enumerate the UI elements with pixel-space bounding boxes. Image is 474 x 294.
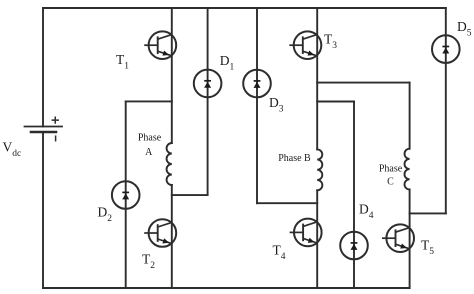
inductor Phase A winding bbox=[167, 143, 172, 185]
svg-text:Phase B: Phase B bbox=[278, 153, 311, 164]
battery plus sign bbox=[52, 117, 58, 123]
wire phase B switch leg lower bbox=[316, 190, 318, 288]
transistor T4 bbox=[290, 219, 322, 247]
inductor Phase C winding bbox=[405, 149, 410, 190]
svg-text:T3: T3 bbox=[324, 31, 337, 51]
svg-text:T2: T2 bbox=[142, 251, 155, 271]
wire left supply leg upper bbox=[42, 8, 44, 127]
wire top bus bbox=[43, 7, 446, 9]
wire left supply leg lower bbox=[42, 132, 44, 288]
transistor T3 bbox=[289, 31, 321, 59]
transistor T5 bbox=[382, 224, 414, 252]
svg-text:T4: T4 bbox=[273, 242, 286, 261]
transistor T1 bbox=[144, 31, 176, 59]
svg-text:D4: D4 bbox=[359, 202, 374, 222]
wire diode D1 leg bbox=[207, 8, 209, 195]
svg-text:D5: D5 bbox=[457, 19, 472, 39]
wire phase B switch leg upper bbox=[316, 8, 318, 149]
wire tap from T3 emitter node to diode D4 bbox=[317, 101, 354, 103]
diode D3 bbox=[243, 70, 271, 98]
wire node between T1 emitter and phase A (to D2) bbox=[126, 100, 172, 102]
svg-text:Phase: Phase bbox=[379, 164, 403, 175]
svg-text:D2: D2 bbox=[98, 204, 113, 224]
wire tap from T3 emitter node to phase C top bbox=[317, 82, 409, 84]
wire phase A switch leg upper bbox=[171, 8, 173, 143]
wire node between phase A and T2 collector (from D1) bbox=[172, 194, 208, 196]
svg-text:C: C bbox=[387, 177, 394, 188]
transistor T2 bbox=[144, 219, 176, 247]
wire node between phase B and T4 collector (from D3) bbox=[257, 202, 317, 204]
svg-text:Vdc: Vdc bbox=[3, 140, 22, 160]
wire diode D3 leg bbox=[256, 8, 258, 203]
wire diode D2 leg bbox=[125, 101, 127, 288]
inductor Phase B winding bbox=[317, 149, 322, 190]
wire bottom bus bbox=[43, 287, 410, 289]
svg-text:A: A bbox=[145, 147, 153, 158]
wire phase C leg upper bbox=[409, 83, 411, 149]
wire phase A switch leg lower bbox=[171, 185, 173, 288]
svg-text:D1: D1 bbox=[220, 53, 235, 73]
battery Vdc positive plate bbox=[25, 126, 63, 128]
wire diode D4 leg bbox=[353, 102, 355, 289]
diode D1 bbox=[194, 70, 222, 98]
svg-text:T1: T1 bbox=[116, 52, 129, 72]
svg-text:T5: T5 bbox=[421, 237, 434, 256]
battery Vdc negative plate bbox=[31, 131, 56, 134]
svg-text:Phase: Phase bbox=[138, 133, 162, 144]
diode D5 bbox=[432, 35, 460, 63]
battery minus tick bbox=[55, 136, 57, 141]
wire node between phase C and T5 collector (to D5) bbox=[410, 212, 446, 214]
diode D2 bbox=[112, 181, 140, 209]
wire phase C leg lower bbox=[409, 190, 411, 289]
svg-text:D3: D3 bbox=[269, 95, 284, 115]
wire diode D5 leg bbox=[445, 8, 447, 213]
diode D4 bbox=[340, 232, 368, 260]
